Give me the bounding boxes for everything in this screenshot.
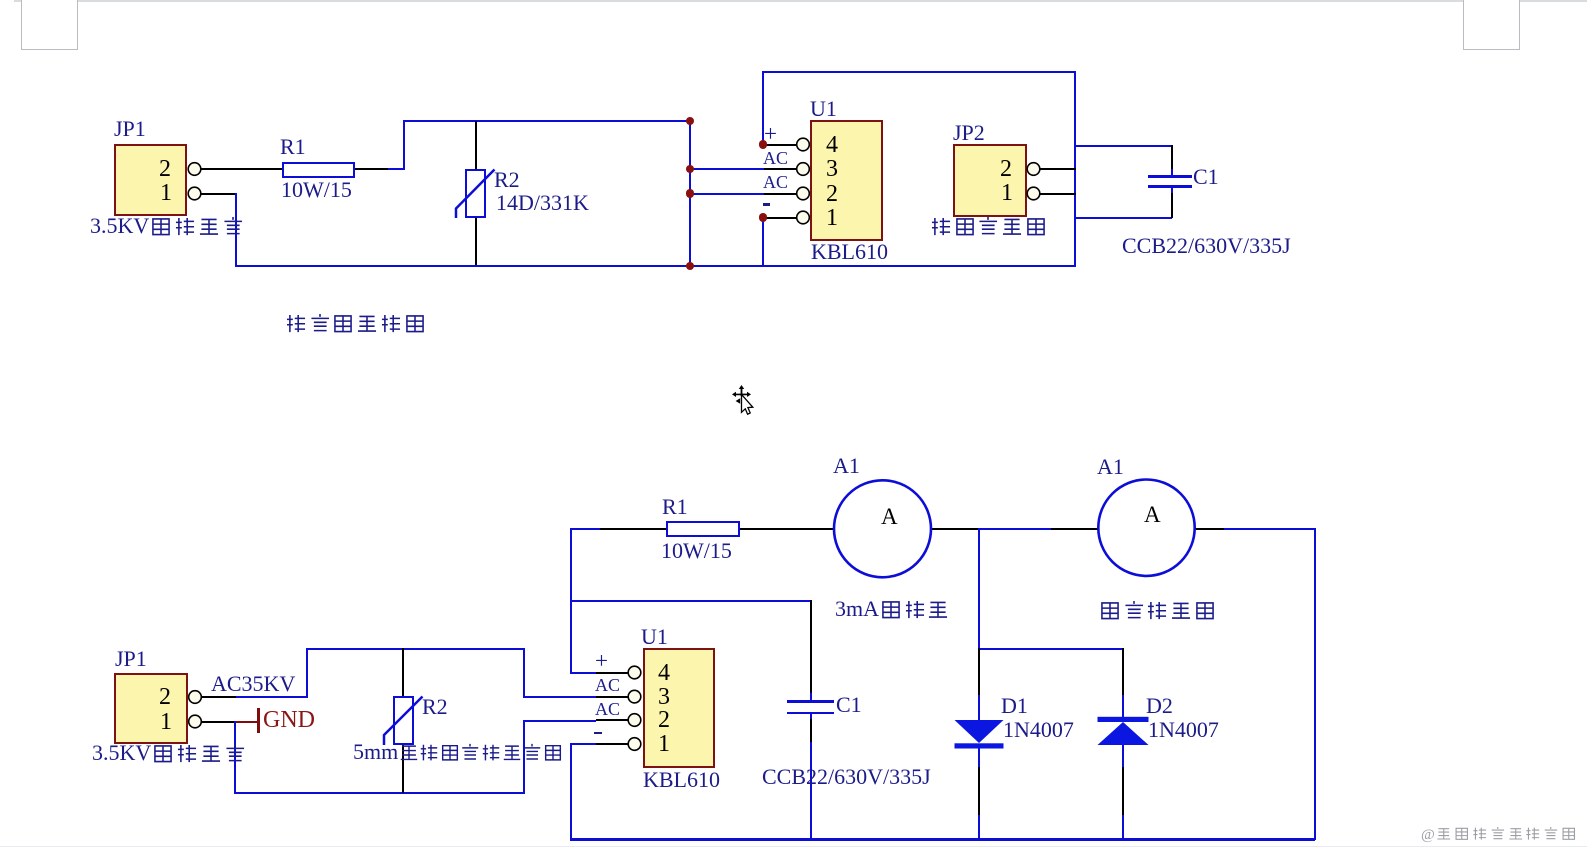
capacitor C1 top stub (blue) bbox=[1171, 169, 1173, 177]
varistor R2 bottom stub (black) bbox=[402, 744, 404, 793]
ammeter A1 (counter) circle bbox=[1098, 480, 1194, 576]
ground GND label bbox=[263, 708, 315, 732]
pin stub U1.4 (black) bbox=[763, 144, 797, 146]
wire to R1 left bbox=[570, 528, 600, 530]
varistor R2 (top) bbox=[465, 169, 486, 218]
diode D2 lower lead (black) bbox=[1122, 767, 1124, 817]
capacitor C1 (bottom) plates bbox=[787, 700, 834, 702]
wire top net y=649 bbox=[306, 648, 525, 650]
wire R1 right (black) bbox=[355, 168, 389, 170]
varistor R2 (bottom) diagonal bbox=[384, 697, 423, 746]
label 3.5KV HV port (top) bbox=[90, 215, 244, 238]
capacitor C1 (bottom) labels bbox=[836, 694, 862, 716]
wire branch to C1 top y=601 bbox=[570, 600, 811, 602]
wire + net vertical x=571 bbox=[570, 528, 572, 674]
diode D1 anode lead (black) bbox=[978, 648, 980, 696]
wire down to pin3 bbox=[523, 648, 525, 697]
ground GND stub (maroon) bbox=[235, 721, 258, 723]
wire R2 top stub (black) bbox=[475, 121, 477, 170]
wire C1 bottom branch bbox=[1074, 217, 1172, 219]
wire + net to pin4 bbox=[570, 672, 596, 674]
pin stub U1.2 (black) bbox=[764, 193, 797, 195]
pin stub JP2.2 (black) bbox=[1040, 168, 1076, 170]
pin circles JP1 top bbox=[188, 163, 201, 176]
junction dot node bus/AC2 bbox=[686, 189, 694, 197]
diode D1 cathode lead (black) bbox=[978, 767, 980, 817]
pin stub U1.2 bottom (black) bbox=[596, 719, 628, 721]
ammeter A1 (3mA) circle bbox=[834, 480, 931, 577]
mouse cursor bbox=[732, 385, 753, 414]
wire R1 right to ammeter (black) bbox=[739, 528, 834, 530]
wire bottom rail y=839 bbox=[570, 838, 1315, 841]
junction dot node bus/AC1 bbox=[686, 165, 694, 173]
junction dot node - pin1 bbox=[759, 213, 767, 221]
wire ammeter2 right (black) bbox=[1195, 528, 1224, 530]
pin label - (bottom U1) bbox=[594, 732, 602, 735]
wire R1 left (black) bbox=[600, 528, 666, 530]
top-left grey corner box bbox=[21, 0, 78, 50]
pin circles JP2 bbox=[1027, 163, 1040, 176]
pin circles U1 bottom bbox=[628, 666, 641, 679]
capacitor C1 bottom: upper lead (black) bbox=[810, 600, 812, 695]
connector JP1 (top) bbox=[114, 144, 187, 216]
resistor R1 (bottom) bbox=[666, 521, 740, 537]
wire branch to D2 y=648 bbox=[978, 648, 1124, 650]
wire right rail x=1314 bbox=[1314, 528, 1316, 840]
pin label - (top U1) bbox=[763, 203, 770, 206]
diode labels bbox=[1001, 695, 1028, 717]
faint bottom hairline bbox=[0, 846, 1587, 847]
diode D2 bbox=[1098, 717, 1149, 722]
capacitor C1 bottom stub (blue) bbox=[1171, 186, 1173, 194]
varistor R2 (top) diagonal bbox=[456, 170, 495, 219]
wire bus x=690 bbox=[689, 120, 691, 267]
wire - net horizontal bbox=[570, 743, 597, 745]
diode D2 lead (black) bbox=[1122, 648, 1124, 696]
ammeter A1 (3mA) labels bbox=[833, 455, 860, 477]
resistor R1 (top) bbox=[282, 162, 355, 178]
wire between ammeters (blue) bbox=[978, 528, 1052, 530]
wire JP1.2 to R1 (black) bbox=[201, 168, 283, 170]
label relay port bbox=[929, 215, 1048, 238]
wire top net y=121 bbox=[403, 120, 691, 122]
capacitor C1 bottom lead (black) bbox=[1171, 193, 1173, 218]
wire JP1.1 down (blue) bbox=[234, 721, 236, 794]
wire JP1.1 stub (black) bbox=[201, 193, 236, 195]
ground GND bar bbox=[257, 708, 260, 733]
top-right grey corner box bbox=[1463, 0, 1520, 50]
wire net AC35KV bbox=[236, 696, 308, 698]
bridge rectifier U1 (top) bbox=[810, 120, 883, 241]
pin stub U1.3 (black) bbox=[764, 168, 797, 170]
wire loop left-bottom x=763 bbox=[762, 216, 764, 266]
junction dot node bus/top bbox=[686, 117, 694, 125]
connector JP2 bbox=[953, 144, 1027, 217]
wire JP1.2 stub bottom (black) bbox=[201, 696, 236, 698]
pin circles JP1 bottom bbox=[189, 691, 202, 704]
wire to right rail (blue) bbox=[1224, 528, 1315, 530]
wire bottom rail y=266 bbox=[235, 265, 1076, 267]
varistor R2 (bottom) bbox=[393, 696, 414, 745]
watermark bbox=[1421, 826, 1578, 843]
label arrester counter bbox=[284, 312, 427, 335]
wire loop top y=72 bbox=[762, 71, 1076, 73]
wire ammeter2 left (black) bbox=[1051, 528, 1098, 530]
wire ammeter1 right (black) bbox=[931, 528, 979, 530]
pin stub U1.4 bottom (black) bbox=[596, 672, 628, 674]
diode D1 bbox=[955, 720, 1004, 743]
wire loop left-top x=763 bbox=[762, 71, 764, 146]
pin stub U1.3 bottom (black) bbox=[596, 696, 628, 698]
pin stub JP2.1 (black) bbox=[1040, 193, 1076, 195]
wire R2 bottom stub (black) bbox=[475, 217, 477, 267]
wire bottom net y=793 bbox=[234, 792, 525, 794]
wire bus to U1 pin3 AC bbox=[690, 168, 765, 170]
pin stub U1.1 (black) bbox=[763, 217, 797, 219]
junction dot node bus/rail bbox=[686, 262, 694, 270]
wire loop right x=1075 bbox=[1074, 71, 1076, 267]
wire C1 top branch bbox=[1074, 145, 1172, 147]
wire D1 net vertical bbox=[978, 528, 980, 649]
pin circles U1 top bbox=[797, 138, 810, 151]
capacitor C1 plates bbox=[1148, 175, 1192, 177]
wire up to pin2 bbox=[523, 720, 525, 793]
wire bus to U1 pin2 AC bbox=[690, 193, 765, 195]
wire JP1.1 stub bottom (black) bbox=[201, 721, 235, 723]
pin stub U1.1 bottom (black) bbox=[596, 743, 628, 745]
browser chrome top grey line bbox=[14, 0, 1587, 2]
varistor R2 top stub (black) bbox=[402, 648, 404, 697]
capacitor C1 (top) labels bbox=[1193, 166, 1219, 188]
ammeter A1 (counter) labels bbox=[1097, 456, 1124, 478]
wire JP1.1 down (blue) bbox=[235, 193, 237, 267]
wire - net down to rail bbox=[570, 743, 572, 840]
bridge rectifier U1 (bottom) bbox=[643, 648, 715, 768]
capacitor C1 bottom: lower lead (black) bbox=[810, 719, 812, 744]
junction dot node + pin4 bbox=[759, 140, 767, 148]
wire blue corner from R1 to top net bbox=[388, 168, 404, 170]
capacitor C1 top lead (black) bbox=[1171, 145, 1173, 170]
connector JP1 (bottom) bbox=[114, 673, 188, 744]
